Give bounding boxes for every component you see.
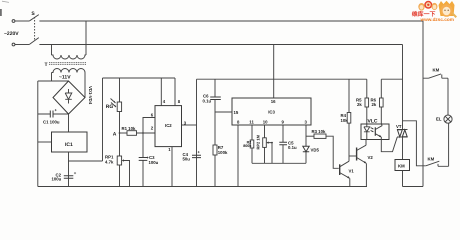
svg-text:16: 16 [271,99,276,104]
sub rail under IC3 [252,162,306,164]
wire terminal to switch top [15,20,30,22]
regulator IC1 [52,132,88,152]
bridge rectifier VD1-VD4 diamond [53,81,85,114]
right rail vertical with C4 [196,79,198,186]
svg-text:RG: RG [106,104,114,110]
rail2 right drop to VT [402,45,404,130]
rail1 top 220V live [39,20,423,22]
VLC LED [364,124,370,140]
pin9 with C5 [282,125,284,163]
left block top rail [103,77,176,79]
svg-text:KM: KM [398,164,405,169]
VLC phototransistor [374,127,376,136]
capacitor C1 [38,113,69,115]
lamp EL [444,115,452,123]
switch link dashed [34,17,36,40]
scan edge mark [0,9,2,16]
junction R1/C3 [142,132,144,134]
wire bridge bottom to IC1 [68,114,70,132]
pin15 stub [215,111,232,113]
terminal lower [12,43,15,46]
svg-text:T: T [45,62,48,68]
VLC emitter to VT gate [381,137,397,152]
resistor R6 [381,79,402,124]
transistor V1 [339,164,341,175]
svg-text:4.7k: 4.7k [105,160,114,165]
VLC light arrows [371,128,374,132]
svg-text:C1 100u: C1 100u [43,120,60,125]
wire lamp bottom [448,123,450,166]
svg-text:A: A [113,132,117,138]
transformer T primary right wire [85,21,87,55]
svg-text:KM: KM [433,68,440,73]
svg-text:IC3: IC3 [268,109,275,114]
switch blade bottom [30,38,39,45]
pin 8 [174,78,176,106]
resistor R1 10k [120,132,128,134]
svg-text:800k: 800k [243,144,252,148]
wire IC1 left stub [38,141,52,143]
bottom ground rail [38,186,367,188]
capacitor C4 [192,155,201,157]
pin8 to ground [237,125,239,187]
svg-text:2k: 2k [372,102,377,107]
wire terminal to switch bottom [15,44,30,46]
svg-text:R3 10k: R3 10k [312,129,326,134]
RG light arrows [111,99,117,108]
C6/R7 branch [214,79,216,186]
wire KM coil bottom loop [403,171,424,187]
pin 1 [171,147,173,187]
transistor V2 [356,148,358,161]
terminal upper [12,20,15,23]
counter IC3 [232,98,311,125]
svg-text:VLC: VLC [368,119,378,125]
svg-text:~220V: ~220V [4,31,19,37]
svg-text:100u: 100u [52,177,62,182]
svg-text:10: 10 [263,120,268,125]
resistor R3 branch [306,135,314,137]
left block left rail [102,78,104,161]
svg-text:VD1-VD4: VD1-VD4 [88,86,93,105]
pin3 with VD5 [305,125,307,163]
svg-text:11: 11 [249,120,254,125]
rail1 right drop [422,21,424,187]
transformer primary winding [52,55,87,59]
contact KM1 blade [423,74,441,78]
svg-text:EL: EL [436,116,442,121]
svg-text:15: 15 [234,110,239,115]
resistor R4 [348,79,350,156]
capacitor C6 [210,97,221,100]
timer IC2 [155,106,182,147]
svg-text:VD5: VD5 [311,148,320,153]
wire lamp top [442,75,448,116]
svg-text:~11V: ~11V [59,75,71,81]
svg-text:2k: 2k [357,102,362,107]
watermark logo mascots [418,1,457,18]
wire IC1 bottom to ground [68,152,70,187]
pin11 with R2 [251,125,253,163]
contact KM2 blade [426,161,440,166]
svg-text:KM: KM [428,157,435,162]
wire IC1 output to left block [69,160,103,162]
relay coil KM [395,160,410,171]
resistor R5 [366,79,368,124]
svg-text:100k: 100k [218,150,228,155]
pin 3 [182,124,197,126]
svg-text:IC2: IC2 [165,123,172,128]
secondary left wire [51,73,53,82]
secondary right wire [84,73,86,98]
svg-text:10k: 10k [341,118,349,123]
pin10 with RP2 [264,125,266,163]
transformer secondary winding [52,69,86,73]
capacitor C3 [142,133,144,187]
svg-text:VT: VT [396,124,402,129]
photoresistor RG [117,102,121,112]
bridge diode symbol [65,89,72,104]
wire bridge top [38,80,69,82]
RP1 wiper [123,161,130,187]
svg-text:RP2 1M: RP2 1M [255,134,260,149]
wire rail2 to pin16 [273,45,275,99]
svg-text:0.1u: 0.1u [288,145,297,150]
svg-text:50u: 50u [183,157,191,162]
photoresistor RG wire [119,78,121,156]
scan corner mark [2,1,9,2]
svg-text:R1 10k: R1 10k [122,126,136,131]
transformer T primary left wire [51,45,53,56]
left rail [37,81,39,187]
resistor R7 [213,145,217,155]
transformer core [49,63,86,65]
triac VT [397,130,408,138]
optocoupler VLC [361,124,389,140]
rail2 [39,44,402,46]
branch rail2 to KM contact2 [403,121,426,166]
potentiometer RP1 [117,156,121,165]
svg-text:IC1: IC1 [65,142,73,148]
wire to pin6 [143,118,155,134]
capacitor C2 [64,176,74,179]
switch blade top [30,15,39,21]
svg-text:0.1u: 0.1u [203,99,212,104]
link V1 collector to V2 base [349,155,357,157]
pin 4 [160,78,162,106]
svg-text:100u: 100u [149,160,159,165]
svg-text:V2: V2 [368,155,374,160]
svg-text:V1: V1 [349,169,355,174]
VT bottom wire [402,137,404,160]
svg-text:www.dzsc.com: www.dzsc.com [420,17,454,22]
right block top rail [197,78,367,80]
